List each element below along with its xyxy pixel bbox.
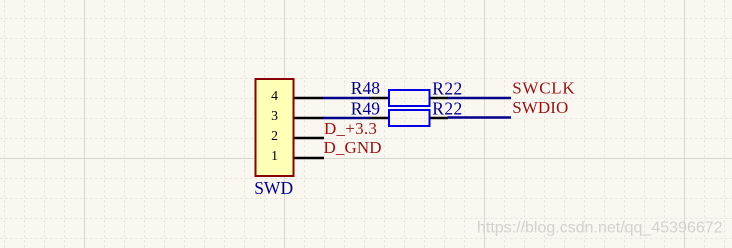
svg-text:R48: R48 bbox=[351, 78, 380, 98]
svg-text:https://blog.csdn.net/qq_45396: https://blog.csdn.net/qq_45396672 bbox=[477, 220, 723, 237]
pin 4 bbox=[295, 97, 324, 100]
svg-text:SWCLK: SWCLK bbox=[512, 79, 575, 98]
svg-text:2: 2 bbox=[271, 128, 278, 143]
svg-text:R22: R22 bbox=[432, 99, 462, 119]
resistor R48 bbox=[370, 90, 449, 106]
wire R48 to SWCLK bbox=[448, 97, 512, 100]
pin 1 bbox=[295, 157, 325, 160]
svg-text:D_GND: D_GND bbox=[324, 138, 382, 157]
svg-text:SWD: SWD bbox=[254, 178, 293, 198]
svg-text:1: 1 bbox=[271, 148, 278, 163]
svg-text:4: 4 bbox=[271, 88, 278, 103]
wire pin4 to R48 bbox=[323, 97, 371, 100]
wire pin3 to R49 bbox=[323, 117, 371, 120]
pin 3 bbox=[295, 117, 324, 120]
wire R49 to SWDIO bbox=[448, 116, 512, 119]
resistor R49 bbox=[370, 110, 449, 126]
svg-text:SWDIO: SWDIO bbox=[512, 98, 568, 117]
svg-text:R49: R49 bbox=[351, 98, 380, 118]
svg-text:D_+3.3: D_+3.3 bbox=[324, 119, 377, 138]
svg-text:R22: R22 bbox=[432, 79, 462, 99]
pin 2 bbox=[295, 137, 325, 140]
svg-text:3: 3 bbox=[271, 108, 278, 123]
connector SWD body bbox=[256, 79, 294, 176]
